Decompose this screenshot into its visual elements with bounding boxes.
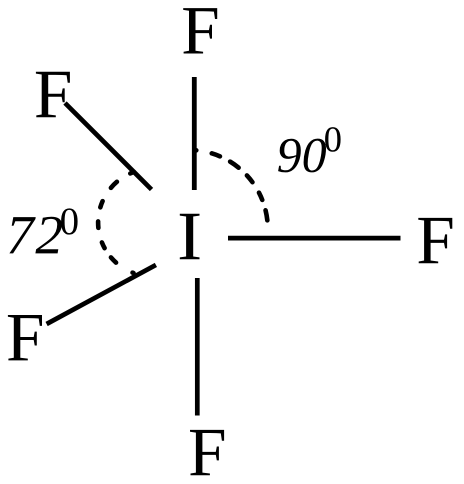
bond I-F1 (top vertical)	[192, 77, 197, 190]
angle arc 72 degrees (dashed, between upper-left and lower-left bonds)	[98, 172, 134, 273]
label 72 superscript 0	[61, 208, 78, 234]
bond I-F5 (bottom vertical)	[195, 278, 200, 416]
atom F1 (top fluorine)	[183, 8, 217, 53]
label 90 superscript 0	[325, 127, 341, 152]
atom F5 (bottom fluorine)	[190, 430, 224, 475]
atom F3 (upper-left fluorine)	[36, 72, 70, 117]
bond I-F4 (lower-left diagonal)	[47, 265, 156, 324]
label 72 degrees	[9, 217, 62, 254]
atom F2 (right fluorine)	[418, 218, 452, 263]
atom I (central iodine)	[180, 214, 200, 259]
angle arc 90 degrees (dashed, between top and right bonds)	[195, 150, 267, 222]
bond I-F3 (upper-left diagonal)	[65, 103, 152, 190]
label 90 degrees	[278, 139, 326, 173]
atom F4 (lower-left fluorine)	[8, 315, 42, 360]
bond I-F2 (right horizontal)	[228, 236, 401, 241]
